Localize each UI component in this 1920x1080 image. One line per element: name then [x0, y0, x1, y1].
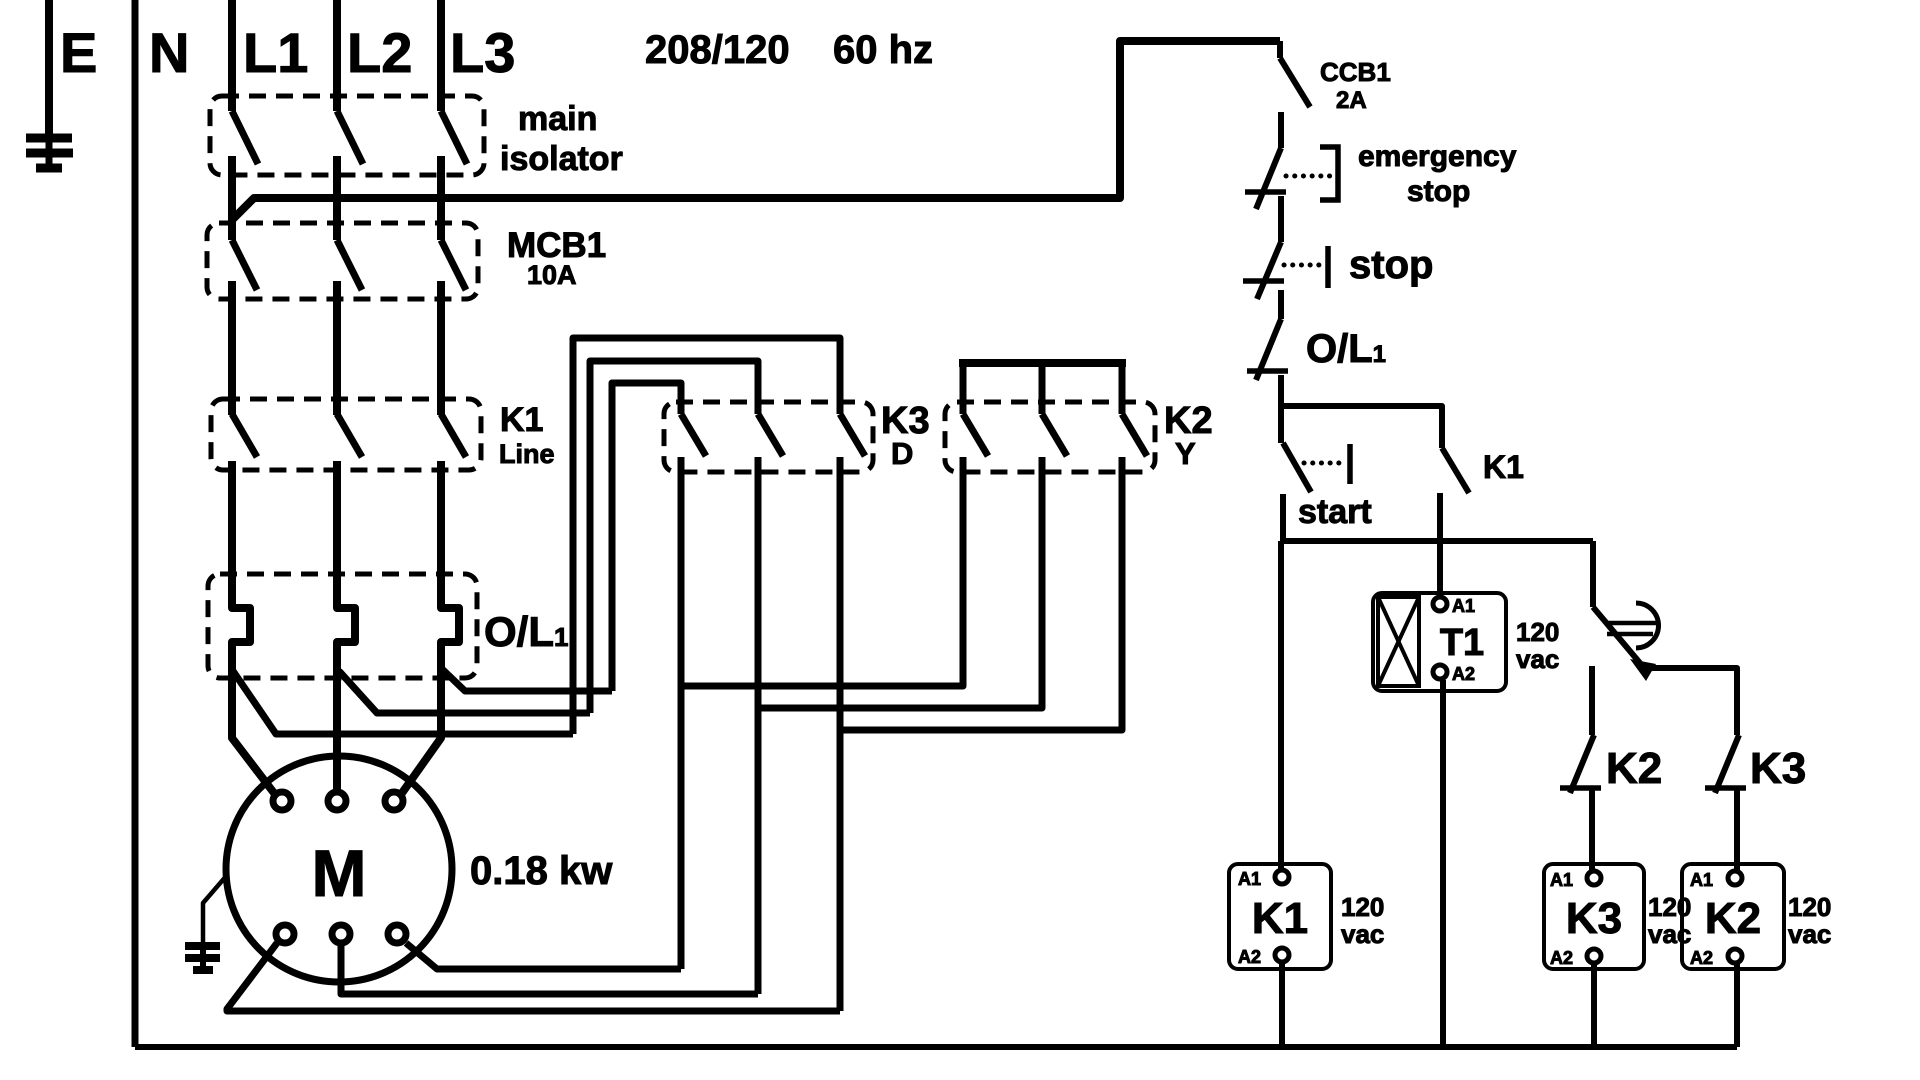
wire K2 NC to K3 coil	[1589, 790, 1595, 870]
ground (earth symbol at E)	[26, 138, 73, 168]
wire K1 A2 to neutral rail	[1279, 963, 1285, 1047]
wire K3 pole2 to motor U2 join	[755, 457, 762, 994]
wire motor frame to ground	[203, 874, 228, 945]
svg-text:A2: A2	[1452, 664, 1475, 684]
svg-text:vac: vac	[1341, 919, 1384, 949]
K3 pole 1 blade	[681, 414, 706, 456]
svg-text:2A: 2A	[1336, 87, 1367, 114]
wire star bar to K2 pole2	[1039, 363, 1046, 414]
wire motor U2 to delta link	[227, 943, 840, 1011]
svg-text:M: M	[312, 836, 367, 910]
svg-text:N: N	[149, 21, 189, 84]
K2 coil terminal A2	[1728, 949, 1742, 963]
wire K3 pole3 to motor V2 join	[837, 457, 844, 1011]
K2 pole 3 blade	[1122, 414, 1147, 456]
svg-text:A1: A1	[1238, 869, 1261, 889]
wire control feed tap from L1 to control circuit	[232, 41, 1280, 220]
wire delta tap phase3 to riser	[441, 668, 612, 691]
wire star bar to K2 pole1	[960, 363, 967, 414]
contactor K2 Y star (dashed enclosure)	[945, 402, 1155, 472]
svg-text:0.18 kw: 0.18 kw	[470, 849, 613, 893]
contactor K1 Line (dashed enclosure)	[211, 399, 481, 470]
wire star bar to K2 pole3	[1119, 363, 1126, 414]
motor terminal U2	[276, 925, 294, 943]
svg-text:L1: L1	[243, 21, 308, 84]
earth conductor E	[45, 0, 53, 140]
svg-text:K2: K2	[1705, 894, 1761, 943]
contactor coil K3 box	[1544, 864, 1644, 969]
T1 on-delay timed NO contact	[1593, 603, 1659, 681]
wire L3 isolator to MCB1	[437, 156, 445, 240]
motor terminal W1	[385, 792, 403, 810]
K3 NC interlock contact	[1705, 735, 1746, 793]
K2 pole 1 blade	[963, 414, 988, 456]
svg-text:120: 120	[1341, 892, 1384, 922]
motor terminal W2	[388, 925, 406, 943]
svg-text:A2: A2	[1690, 948, 1713, 968]
svg-text:L2: L2	[347, 21, 412, 84]
motor terminal V2	[332, 925, 350, 943]
phase conductor L1	[228, 0, 236, 111]
svg-text:Line: Line	[499, 439, 555, 469]
svg-text:10A: 10A	[527, 260, 577, 290]
svg-text:K2: K2	[1606, 744, 1662, 793]
stop NC pushbutton	[1243, 242, 1328, 299]
main isolator pole 1 blade	[232, 111, 258, 164]
svg-text:stop: stop	[1349, 243, 1433, 287]
svg-text:CCB1: CCB1	[1320, 57, 1391, 87]
wire start to junction	[1280, 494, 1286, 541]
svg-text:vac: vac	[1648, 919, 1691, 949]
K2 coil terminal A1	[1728, 871, 1742, 885]
wire L1 K1 to O/L1 heater	[232, 461, 250, 678]
overload relay O/L1 (dashed enclosure)	[208, 574, 477, 678]
MCB1 pole 2 blade	[337, 240, 362, 290]
svg-text:K1: K1	[500, 401, 543, 439]
contactor coil K2 box	[1682, 864, 1784, 969]
wire emergency stop to stop	[1278, 196, 1284, 242]
wire to K2 NC branch	[1589, 666, 1595, 735]
svg-text:K3: K3	[1566, 894, 1622, 943]
K1 NO auxiliary contact	[1442, 448, 1469, 493]
K1 pole 1 blade	[232, 414, 257, 457]
K1 coil terminal A2	[1275, 948, 1289, 962]
K3 pole 3 blade	[840, 414, 865, 456]
wire O/L1 phase3 to motor W1	[402, 678, 441, 793]
wire K3 NC to K2 coil	[1734, 790, 1740, 870]
svg-text:A1: A1	[1690, 870, 1713, 890]
wire L2 MCB1 to K1	[333, 281, 341, 415]
neutral rail wire	[135, 1044, 1737, 1050]
wire stop to O/L1 contact	[1278, 290, 1284, 319]
main isolator QS1 (dashed enclosure)	[210, 96, 484, 175]
svg-text:vac: vac	[1788, 919, 1831, 949]
svg-text:60 hz: 60 hz	[833, 28, 933, 72]
wire junction to T1 A1	[1437, 541, 1443, 597]
wire timed contact to K3 NC branch	[1641, 668, 1737, 735]
svg-text:A1: A1	[1452, 596, 1475, 616]
svg-text:E: E	[60, 21, 97, 84]
phase conductor L3	[437, 0, 445, 111]
svg-text:start: start	[1298, 493, 1372, 531]
wire junction to timed contact	[1590, 541, 1596, 607]
start NO pushbutton	[1283, 443, 1350, 492]
ground (motor earth symbol)	[185, 946, 220, 970]
wire riser phase2 to K3 pole 2	[590, 361, 758, 713]
neutral conductor N	[132, 0, 139, 1047]
K2 pole 2 blade	[1042, 414, 1067, 456]
wire L3 K1 to O/L1 heater	[441, 461, 459, 678]
svg-text:vac: vac	[1516, 644, 1559, 674]
svg-text:main: main	[518, 100, 597, 138]
MCB1 pole 1 blade	[232, 240, 257, 290]
wire winding-end link to K2 pole3	[840, 457, 1122, 730]
main isolator pole 3 blade	[441, 111, 467, 164]
svg-text:isolator: isolator	[500, 140, 623, 178]
MCB1 10A (dashed enclosure)	[207, 223, 478, 299]
svg-text:A2: A2	[1550, 948, 1573, 968]
motor M circle	[226, 756, 452, 982]
svg-text:T1: T1	[1440, 622, 1484, 664]
motor terminal U1	[273, 792, 291, 810]
K3 pole 2 blade	[758, 414, 783, 456]
wire L2 K1 to O/L1 heater	[337, 461, 355, 678]
wire O/L1 phase1 to motor U1	[232, 678, 274, 793]
svg-text:120: 120	[1788, 892, 1831, 922]
K3 coil terminal A2	[1587, 949, 1601, 963]
K1 pole 2 blade	[337, 414, 362, 457]
svg-text:K3: K3	[1750, 744, 1806, 793]
O/L1 NC contact	[1247, 319, 1288, 380]
circuit breaker CCB1 2A blade	[1280, 41, 1310, 107]
T1 terminal A1	[1433, 597, 1447, 611]
motor terminal V1	[328, 792, 346, 810]
wire junction to K1 coil	[1278, 541, 1284, 870]
wire branch top to K1 contact	[1281, 406, 1442, 448]
svg-text:D: D	[891, 436, 913, 471]
wire K2 A2 to neutral rail	[1734, 964, 1740, 1047]
MCB1 pole 3 blade	[441, 240, 466, 290]
wire K1 contact to junction	[1437, 493, 1443, 541]
wire K3 pole1 to motor W2 join	[678, 457, 685, 969]
wire O/L1 phase2 to motor V1	[333, 678, 341, 790]
emergency stop NC pushbutton	[1245, 147, 1338, 209]
svg-text:K1: K1	[1252, 894, 1308, 943]
wire T1 A2 to neutral rail	[1440, 680, 1446, 1047]
wire winding-end link to K2 pole1	[681, 457, 963, 686]
K2 NC interlock contact	[1560, 735, 1601, 793]
wire L2 isolator to MCB1	[333, 156, 341, 240]
contactor K3 D delta (dashed enclosure)	[664, 402, 873, 472]
wire delta tap phase2 to riser	[339, 671, 590, 713]
svg-text:stop: stop	[1407, 175, 1470, 208]
wire L3 MCB1 to K1	[437, 281, 445, 415]
svg-text:120: 120	[1516, 617, 1559, 647]
contactor coil K1 box	[1229, 864, 1331, 969]
wire riser phase1 to K3 pole 3	[573, 338, 840, 734]
svg-text:120: 120	[1648, 892, 1691, 922]
svg-text:emergency: emergency	[1358, 140, 1517, 173]
T1 terminal A2	[1433, 665, 1447, 679]
K1 coil terminal A1	[1275, 870, 1289, 884]
wire CCB1 to emergency stop	[1278, 112, 1284, 148]
wire K3 A2 to neutral rail	[1591, 964, 1597, 1047]
phase conductor L2	[333, 0, 341, 111]
star point bar of K2	[959, 359, 1126, 367]
K3 coil terminal A1	[1587, 871, 1601, 885]
K1 pole 3 blade	[441, 414, 466, 457]
wire L1 isolator to MCB1	[228, 156, 236, 240]
wire delta tap phase1 to riser	[233, 671, 573, 734]
svg-text:L3: L3	[450, 21, 515, 84]
svg-text:K1: K1	[1483, 449, 1524, 485]
svg-text:A2: A2	[1238, 947, 1261, 967]
svg-text:A1: A1	[1550, 870, 1573, 890]
wire L1 MCB1 to K1	[228, 281, 236, 415]
wire motor V2 to delta link	[341, 946, 758, 994]
wire motor W2 to delta link	[406, 943, 681, 969]
svg-text:Y: Y	[1175, 436, 1196, 471]
wire riser phase3 to K3 pole 1	[612, 383, 681, 691]
wire winding-end link to K2 pole2	[758, 457, 1042, 708]
wire O/L1 to start / K1 branch node	[1278, 375, 1284, 443]
timer T1 box	[1373, 593, 1506, 691]
wire junction rail	[1281, 538, 1593, 544]
svg-text:208/120: 208/120	[645, 28, 790, 72]
main isolator pole 2 blade	[337, 111, 363, 164]
